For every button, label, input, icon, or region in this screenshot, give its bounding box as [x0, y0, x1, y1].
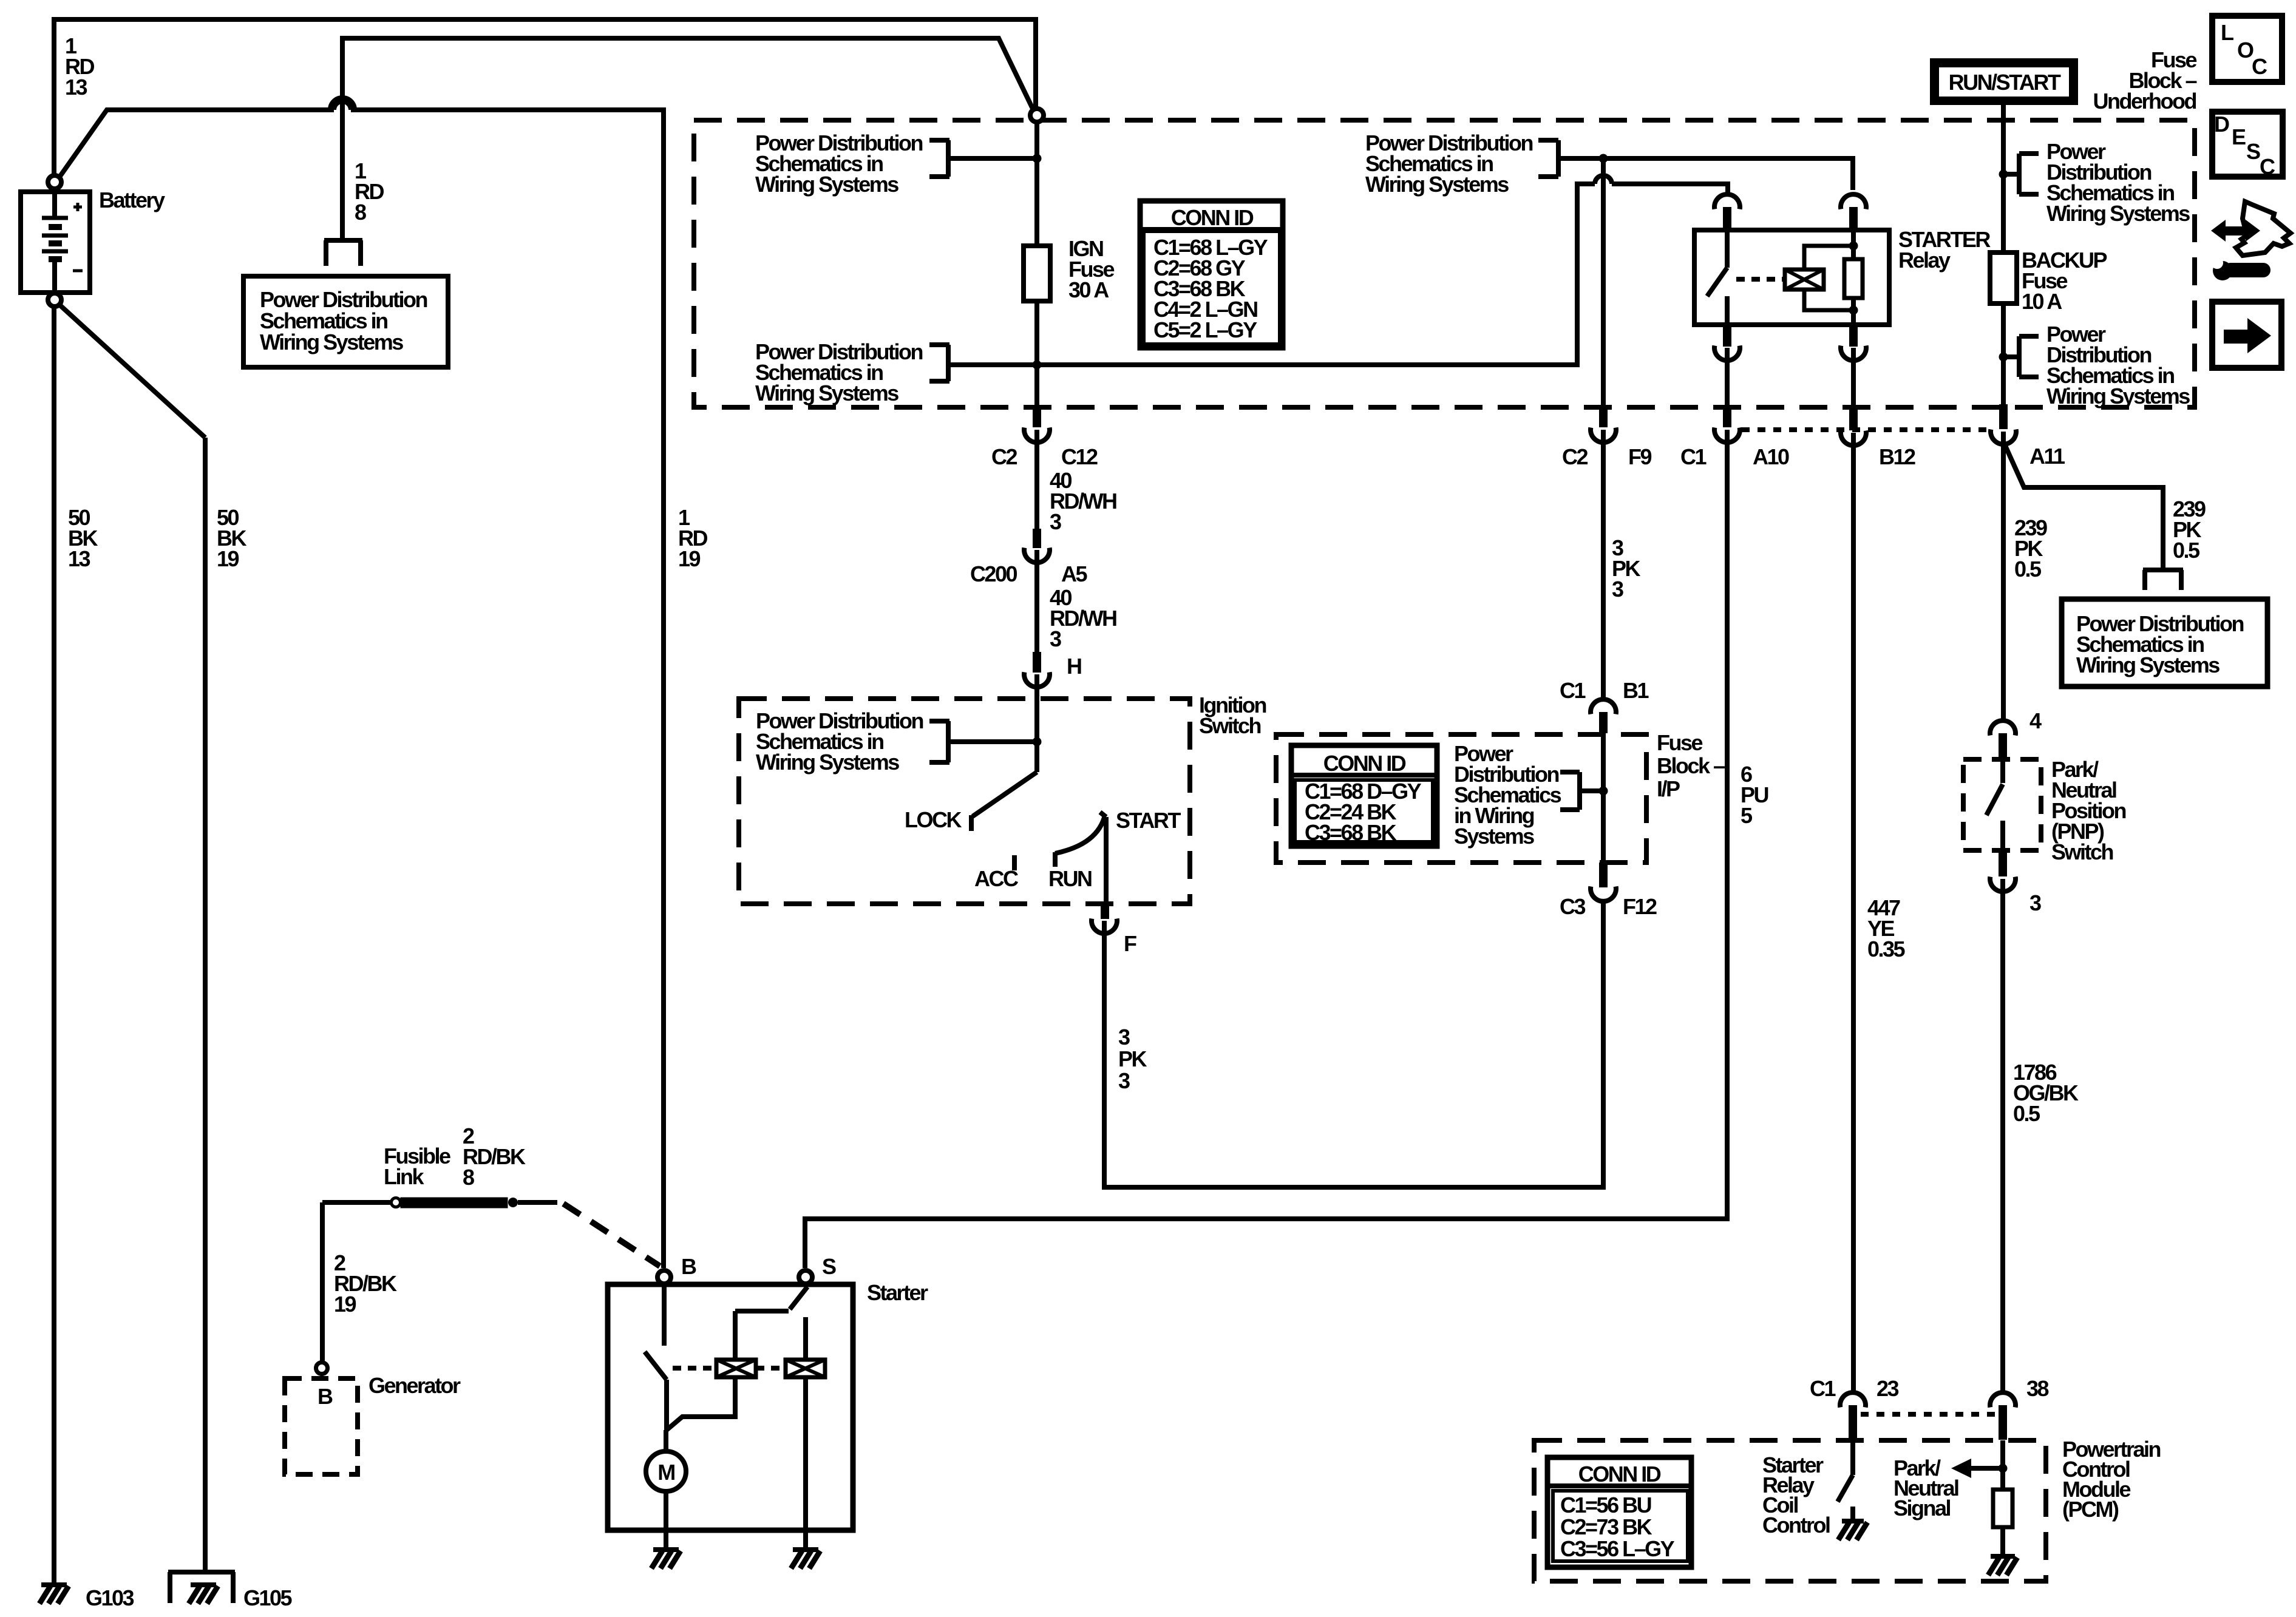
svg-text:Block –: Block –	[1657, 753, 1725, 778]
svg-text:LOCK: LOCK	[905, 807, 962, 832]
svg-text:G103: G103	[86, 1585, 134, 1610]
svg-text:3: 3	[1050, 509, 1061, 534]
svg-text:H: H	[1067, 654, 1081, 679]
svg-text:F9: F9	[1628, 444, 1651, 469]
svg-text:E: E	[2232, 124, 2246, 149]
svg-text:0.5: 0.5	[2014, 557, 2042, 581]
svg-text:Wiring Systems: Wiring Systems	[2076, 653, 2220, 677]
svg-text:F: F	[1124, 931, 1136, 956]
svg-text:30 A: 30 A	[1068, 277, 1109, 302]
svg-text:C5=2 L–GY: C5=2 L–GY	[1153, 317, 1257, 342]
svg-text:B: B	[318, 1384, 333, 1409]
svg-text:M: M	[657, 1460, 674, 1485]
svg-text:A5: A5	[1061, 561, 1087, 586]
svg-text:C1: C1	[1560, 678, 1586, 703]
svg-text:Starter: Starter	[867, 1280, 928, 1305]
svg-text:CONN ID: CONN ID	[1171, 205, 1254, 230]
svg-text:A10: A10	[1753, 444, 1789, 469]
svg-text:C3: C3	[1560, 894, 1585, 919]
svg-text:B12: B12	[1879, 444, 1915, 469]
svg-text:13: 13	[68, 546, 90, 571]
svg-text:Wiring Systems: Wiring Systems	[755, 381, 898, 405]
svg-text:Control: Control	[1762, 1513, 1830, 1537]
svg-text:RUN/START: RUN/START	[1949, 70, 2061, 95]
svg-text:F12: F12	[1623, 894, 1657, 919]
svg-text:C3=68 BK: C3=68 BK	[1305, 820, 1397, 845]
svg-text:C1=56 BU: C1=56 BU	[1560, 1493, 1651, 1517]
svg-text:C1: C1	[1810, 1376, 1836, 1401]
svg-text:8: 8	[463, 1165, 474, 1190]
svg-text:C: C	[2252, 54, 2267, 79]
svg-text:3: 3	[1612, 577, 1623, 602]
svg-text:CONN ID: CONN ID	[1323, 751, 1406, 776]
svg-text:Wiring Systems: Wiring Systems	[1365, 172, 1509, 197]
svg-text:19: 19	[334, 1292, 356, 1317]
svg-text:Switch: Switch	[2051, 839, 2113, 864]
svg-text:PK: PK	[1118, 1046, 1147, 1071]
svg-text:C200: C200	[970, 561, 1017, 586]
svg-text:Relay: Relay	[1898, 248, 1951, 273]
svg-text:38: 38	[2026, 1376, 2049, 1401]
svg-text:ACC: ACC	[974, 866, 1019, 891]
svg-text:Wiring Systems: Wiring Systems	[755, 172, 898, 197]
svg-text:3: 3	[1118, 1068, 1130, 1093]
svg-text:0.5: 0.5	[2173, 538, 2200, 563]
svg-text:C2: C2	[991, 444, 1017, 469]
svg-text:23: 23	[1877, 1376, 1899, 1401]
svg-text:C2=73 BK: C2=73 BK	[1560, 1514, 1652, 1539]
svg-text:3: 3	[2029, 890, 2041, 915]
svg-text:C1: C1	[1680, 444, 1707, 469]
svg-text:S: S	[822, 1254, 836, 1279]
svg-text:Fuse: Fuse	[1657, 730, 1703, 755]
svg-text:Wiring Systems: Wiring Systems	[260, 330, 403, 354]
svg-text:G105: G105	[243, 1585, 293, 1610]
svg-text:4: 4	[2029, 708, 2042, 733]
svg-text:(PCM): (PCM)	[2062, 1497, 2119, 1522]
svg-text:5: 5	[1741, 803, 1753, 828]
svg-text:Generator: Generator	[369, 1373, 461, 1398]
svg-text:13: 13	[65, 75, 87, 100]
svg-text:L: L	[2221, 20, 2233, 45]
svg-text:S: S	[2246, 139, 2260, 164]
svg-text:Switch: Switch	[1199, 713, 1261, 738]
svg-text:I/P: I/P	[1657, 776, 1680, 801]
svg-text:Signal: Signal	[1894, 1496, 1951, 1520]
svg-text:C: C	[2260, 154, 2275, 179]
svg-text:3: 3	[1118, 1025, 1130, 1049]
svg-text:Wiring Systems: Wiring Systems	[2046, 384, 2190, 408]
svg-text:Wiring Systems: Wiring Systems	[2046, 201, 2190, 226]
svg-text:Systems: Systems	[1454, 824, 1534, 849]
svg-text:START: START	[1116, 808, 1181, 833]
svg-text:0.5: 0.5	[2013, 1101, 2040, 1126]
svg-text:A11: A11	[2029, 444, 2065, 469]
svg-text:O: O	[2237, 38, 2254, 63]
svg-text:10 A: 10 A	[2022, 289, 2062, 314]
svg-text:Underhood: Underhood	[2093, 89, 2196, 114]
svg-text:B: B	[681, 1254, 696, 1279]
svg-text:Wiring Systems: Wiring Systems	[756, 750, 899, 775]
svg-text:3: 3	[1050, 626, 1061, 651]
svg-text:0.35: 0.35	[1867, 937, 1906, 961]
svg-text:C3=56 L–GY: C3=56 L–GY	[1560, 1536, 1675, 1561]
svg-text:19: 19	[678, 546, 701, 571]
svg-text:Battery: Battery	[99, 188, 165, 212]
svg-text:CONN ID: CONN ID	[1578, 1462, 1661, 1486]
svg-text:RUN: RUN	[1048, 866, 1092, 891]
svg-text:C2: C2	[1562, 444, 1588, 469]
svg-text:19: 19	[217, 546, 239, 571]
svg-text:B1: B1	[1623, 678, 1649, 703]
svg-text:8: 8	[355, 200, 366, 225]
svg-text:Link: Link	[384, 1164, 424, 1189]
svg-text:D: D	[2214, 112, 2229, 137]
svg-text:C12: C12	[1061, 444, 1098, 469]
